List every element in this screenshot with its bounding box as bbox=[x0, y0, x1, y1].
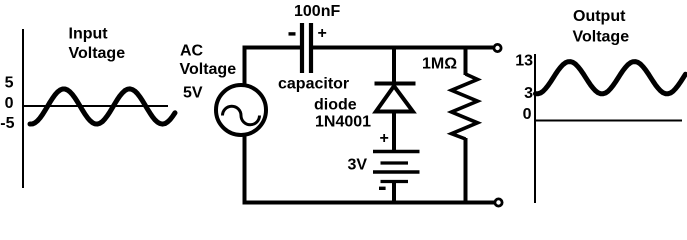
resistor R1 zigzag bbox=[452, 74, 478, 139]
output graph zero line bbox=[535, 120, 682, 122]
svg-text:1MΩ: 1MΩ bbox=[422, 56, 457, 73]
svg-text:1N4001: 1N4001 bbox=[315, 114, 371, 131]
svg-text:5V: 5V bbox=[183, 85, 203, 102]
wire: diode to battery bbox=[392, 112, 396, 153]
svg-text:0: 0 bbox=[523, 106, 532, 123]
wire: battery to bottom rail bbox=[392, 182, 396, 205]
svg-text:+: + bbox=[380, 130, 389, 147]
output terminal top bbox=[494, 44, 501, 51]
AC source V1 circle bbox=[216, 85, 266, 135]
svg-text:Input: Input bbox=[69, 26, 109, 43]
svg-text:Voltage: Voltage bbox=[69, 45, 126, 62]
svg-text:capacitor: capacitor bbox=[278, 76, 349, 93]
diode D1 triangle bbox=[376, 86, 413, 112]
input graph vertical axis bbox=[22, 29, 24, 188]
svg-text:0: 0 bbox=[5, 95, 14, 112]
svg-text:AC: AC bbox=[180, 43, 204, 60]
svg-text:13: 13 bbox=[515, 53, 533, 70]
svg-text:diode: diode bbox=[314, 97, 357, 114]
wire: left vertical, AC top to top rail bbox=[243, 46, 247, 86]
capacitor C1 100nF plates bbox=[300, 23, 304, 73]
battery B1 short plate 4 bbox=[381, 180, 409, 183]
output graph vertical axis bbox=[534, 54, 536, 203]
output sine waveform bbox=[536, 62, 686, 94]
svg-text:3: 3 bbox=[524, 85, 533, 102]
wire: bottom rail bbox=[243, 201, 495, 205]
input graph zero line bbox=[23, 105, 168, 107]
svg-text:3V: 3V bbox=[348, 157, 368, 174]
svg-text:+: + bbox=[318, 25, 327, 42]
wire: resistor branch from top rail bbox=[464, 46, 468, 76]
wire: top rail right of capacitor bbox=[312, 46, 493, 50]
battery B1 long plate 3 bbox=[373, 170, 420, 174]
battery B1 short plate 2 bbox=[381, 161, 409, 164]
battery minus polarity mark bbox=[379, 187, 386, 190]
wire: top rail left of capacitor bbox=[243, 46, 301, 50]
diode D1 cathode bar bbox=[375, 82, 416, 86]
svg-text:-5: -5 bbox=[0, 115, 14, 132]
svg-text:100nF: 100nF bbox=[294, 3, 340, 20]
wire: resistor to bottom rail bbox=[464, 138, 468, 205]
battery B1 long plate 1 bbox=[373, 150, 420, 154]
output terminal bottom bbox=[495, 199, 502, 206]
svg-text:Voltage: Voltage bbox=[573, 29, 630, 46]
wire: diode branch from top rail bbox=[392, 46, 396, 83]
AC source sine symbol bbox=[223, 106, 260, 125]
wire: left vertical, AC bottom to bottom rail bbox=[243, 135, 247, 205]
svg-text:Output: Output bbox=[573, 8, 626, 25]
svg-text:Voltage: Voltage bbox=[180, 61, 237, 78]
input sine waveform bbox=[30, 89, 175, 124]
svg-text:5: 5 bbox=[5, 75, 14, 92]
capacitor minus polarity mark bbox=[289, 32, 296, 35]
